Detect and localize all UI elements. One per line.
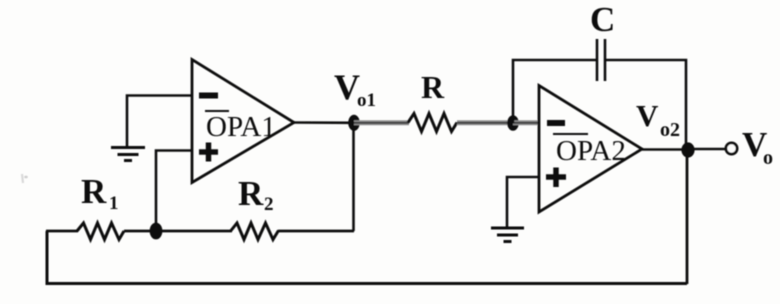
wire: OPA2 output <box>642 148 688 151</box>
svg-text:R: R <box>421 69 445 105</box>
wire: junction to R2 <box>156 230 232 233</box>
svg-text:OPA2: OPA2 <box>556 135 626 167</box>
svg-text:OPA1: OPA1 <box>206 111 276 143</box>
wire: R2 to Vo1 riser <box>278 230 354 233</box>
wire: OPA1 inverting input to ground <box>127 96 191 147</box>
node2 OPA2 inverting input <box>507 115 519 131</box>
wire: OPA2 non-inverting input to ground <box>507 177 539 227</box>
svg-text:o1: o1 <box>357 90 376 111</box>
wire: left end to R1 <box>46 230 78 233</box>
wire: Vo2 node down right side <box>686 150 689 285</box>
resistor R <box>408 114 457 132</box>
svg-text:R: R <box>238 174 264 213</box>
wire: capacitor to Vo2 node <box>605 60 686 149</box>
svg-text:2: 2 <box>264 194 274 215</box>
wire: bottom return and left riser <box>47 231 687 284</box>
ground G2 <box>491 228 524 242</box>
resistor R2 <box>231 223 279 240</box>
node Vo1 <box>348 115 360 131</box>
scan smudge left margin <box>22 174 23 183</box>
svg-text:C: C <box>590 0 615 39</box>
terminal Vo (open circle) <box>726 143 737 154</box>
wire: OPA1 output <box>294 121 354 124</box>
op-amp U2 OPA2 <box>539 86 642 213</box>
wire: OPA1 non-inverting input lead <box>156 151 191 232</box>
wire: node2 to OPA2 <box>513 120 539 125</box>
resistor R1 <box>77 223 124 240</box>
wire: Vo2 node to output terminal <box>688 148 726 151</box>
capacitor C <box>597 39 605 81</box>
wire: feedback up and to capacitor <box>513 60 596 123</box>
svg-text:o: o <box>763 147 773 169</box>
svg-text:1: 1 <box>109 193 119 214</box>
svg-text:R: R <box>81 172 107 211</box>
node Vo2 <box>681 142 694 157</box>
wire: R1 to junction <box>124 230 156 233</box>
wire: Vo1 to resistor R (grey scanned) <box>354 120 409 125</box>
junction node (R1-R2-OPA1+) <box>150 223 163 240</box>
wire: Vo1 node down to R2 <box>352 123 355 231</box>
svg-text:V: V <box>636 98 659 133</box>
ground G1 <box>111 148 145 161</box>
wire: R to node2 (grey scanned) <box>457 120 513 125</box>
op-amp U1 OPA1 <box>192 60 294 183</box>
scan speck <box>24 176 28 179</box>
svg-text:o2: o2 <box>660 119 680 141</box>
